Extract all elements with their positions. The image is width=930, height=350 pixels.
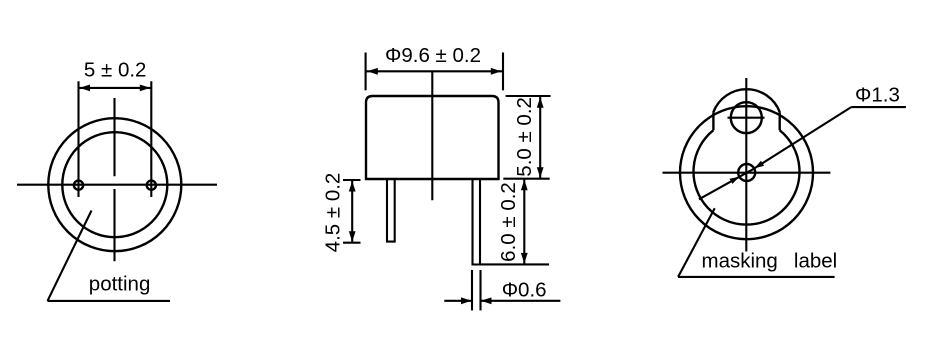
svg-text:potting: potting [89, 273, 151, 296]
svg-text:4.5 ± 0.2: 4.5 ± 0.2 [322, 173, 345, 253]
svg-text:Φ0.6: Φ0.6 [502, 279, 547, 302]
svg-text:Φ1.3: Φ1.3 [855, 84, 900, 107]
svg-text:6.0 ± 0.2: 6.0 ± 0.2 [497, 182, 520, 262]
svg-text:masking: masking [702, 250, 778, 273]
svg-text:5.0 ± 0.2: 5.0 ± 0.2 [513, 97, 536, 177]
svg-text:label: label [794, 250, 837, 273]
svg-text:Φ9.6 ± 0.2: Φ9.6 ± 0.2 [385, 44, 481, 67]
svg-text:5 ± 0.2: 5 ± 0.2 [84, 58, 147, 81]
